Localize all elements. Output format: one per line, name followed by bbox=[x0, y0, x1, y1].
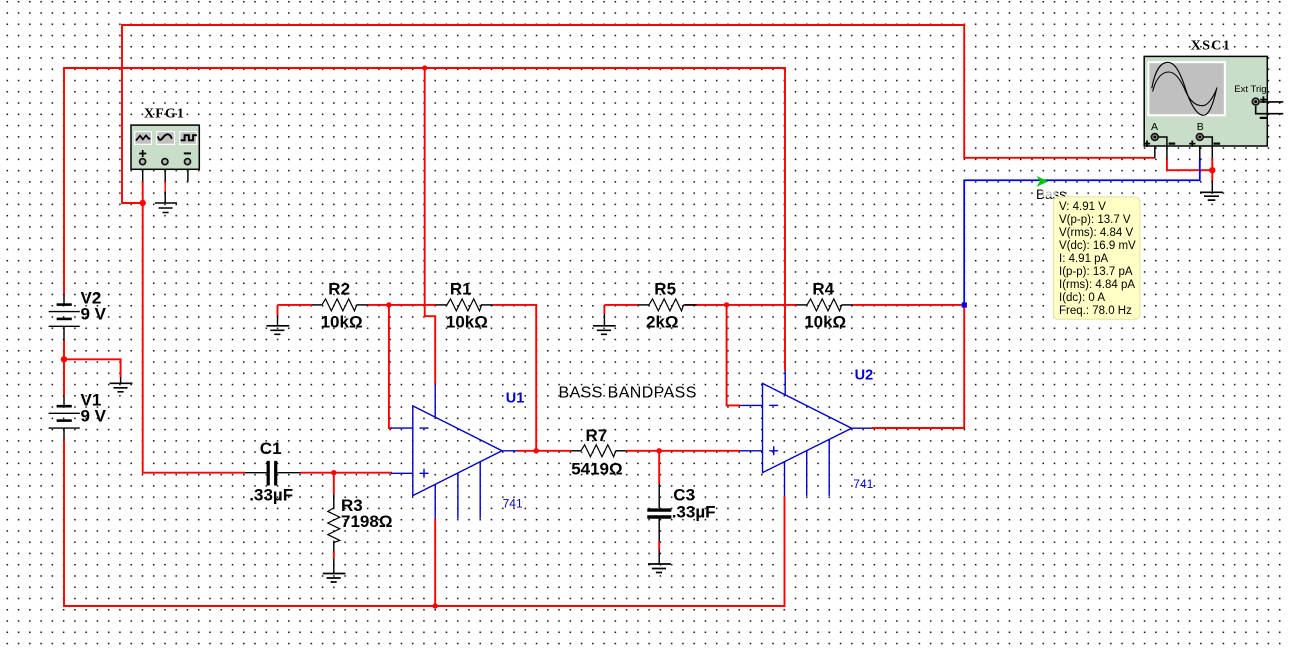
probe tooltip yellow box bbox=[1053, 197, 1140, 319]
scope trace A bbox=[1152, 62, 1217, 115]
svg-text:XSC1: XSC1 bbox=[1191, 39, 1231, 54]
svg-text:R7: R7 bbox=[586, 426, 608, 445]
ground mid rail bbox=[110, 383, 133, 392]
svg-text:U2: U2 bbox=[855, 368, 874, 384]
terminal 1 bbox=[140, 159, 146, 165]
lead R3 bottom black bbox=[333, 541, 335, 574]
lead XFG1 plus stub bbox=[142, 169, 144, 181]
lead R3 top black bbox=[333, 494, 335, 508]
ground R5 bbox=[593, 326, 616, 335]
svg-text:R2: R2 bbox=[328, 279, 350, 298]
svg-text:5419Ω: 5419Ω bbox=[571, 459, 622, 478]
lead C3 top black bbox=[658, 484, 660, 508]
lead V2 bottom stub bbox=[63, 326, 65, 340]
node R5 R4 bbox=[724, 302, 729, 307]
svg-text:V: 4.91 V: V: 4.91 V bbox=[1059, 201, 1106, 213]
node battery mid bbox=[61, 356, 67, 362]
port B bbox=[1196, 134, 1203, 141]
svg-text:741: 741 bbox=[853, 477, 873, 491]
wire C3 bottom red seg bbox=[658, 541, 660, 551]
minus mark bbox=[184, 152, 191, 154]
wire R2R1 junction down to U1 minus bbox=[389, 305, 392, 428]
port Ext Trig bbox=[1252, 98, 1259, 105]
wire top rail to scope A bbox=[122, 25, 1155, 203]
ground C3 bbox=[648, 564, 671, 573]
svg-text:U1: U1 bbox=[506, 391, 525, 407]
wire scope B minus red seg bbox=[1211, 158, 1213, 181]
lead XFG1 mid stub bbox=[164, 169, 166, 203]
lead R7 right lead bbox=[616, 450, 627, 452]
svg-text:I(dc): 0 A: I(dc): 0 A bbox=[1059, 292, 1105, 304]
wire R2 ground stub bbox=[277, 305, 279, 316]
svg-text:I(p-p): 13.7 pA: I(p-p): 13.7 pA bbox=[1059, 266, 1133, 278]
lead scope stubs bbox=[1155, 146, 1213, 192]
node R7 C3 bbox=[657, 448, 662, 453]
lead C1 left lead bbox=[245, 472, 267, 474]
wire R2 right to R1 bbox=[367, 304, 436, 306]
wire V+ rail bbox=[64, 68, 785, 371]
green probe arrow Bass bbox=[1036, 176, 1048, 187]
button sine wave bbox=[156, 131, 175, 145]
wire V1 down bottom rail to U2 pin bbox=[64, 439, 785, 606]
node R2 R1 bbox=[386, 302, 391, 307]
ground R3 bbox=[323, 574, 346, 583]
lead R7 left lead bbox=[571, 450, 581, 452]
lead C3 bottom black bbox=[658, 519, 660, 565]
node XFG1 plus bbox=[140, 200, 146, 206]
svg-text:I(rms): 4.84 pA: I(rms): 4.84 pA bbox=[1059, 279, 1135, 291]
lead R5 ground stub black bbox=[603, 314, 605, 326]
lead R5 right lead bbox=[684, 304, 697, 306]
resistor R5 bbox=[649, 299, 684, 311]
wire R7 to U2 plus bbox=[626, 450, 740, 452]
node C1 R3 bbox=[331, 470, 336, 475]
wire R5R4 junction to U2 minus bbox=[727, 305, 740, 406]
wire C1 to U1 plus bbox=[301, 472, 393, 474]
wire R2 left bbox=[278, 304, 313, 306]
wire U1 pin4 down bbox=[434, 519, 436, 607]
svg-text:7198Ω: 7198Ω bbox=[341, 512, 392, 531]
resistor R2 bbox=[322, 299, 357, 311]
node top jog bbox=[422, 65, 427, 70]
capacitor C1 bbox=[268, 461, 276, 486]
wire junction to V1 bbox=[63, 359, 65, 395]
ground R2 bbox=[266, 326, 289, 335]
svg-text:2kΩ: 2kΩ bbox=[646, 312, 679, 331]
node scope minus bbox=[1209, 167, 1215, 173]
svg-text:XFG1: XFG1 bbox=[144, 107, 185, 122]
wire scope A minus to B minus bbox=[1167, 158, 1212, 170]
svg-text:BASS BANDPASS: BASS BANDPASS bbox=[559, 384, 697, 401]
svg-text:.33µF: .33µF bbox=[249, 486, 293, 505]
port A bbox=[1151, 134, 1158, 141]
svg-text:10kΩ: 10kΩ bbox=[321, 312, 363, 331]
wire top jog down to U1 pin7 bbox=[425, 68, 436, 384]
lead XFG1 right stub bbox=[187, 169, 189, 181]
svg-text:V(p-p): 13.7 V: V(p-p): 13.7 V bbox=[1059, 214, 1131, 226]
lead C1 right lead bbox=[277, 472, 300, 474]
button triangle wave bbox=[134, 131, 152, 145]
lead R5 left lead bbox=[638, 304, 649, 306]
wire U1 out to R7 bbox=[517, 450, 572, 452]
scope screen bbox=[1147, 61, 1226, 116]
svg-text:.33µF: .33µF bbox=[672, 502, 716, 521]
wire Bass node up to scope B plus bbox=[964, 158, 1200, 305]
terminal 2 bbox=[162, 159, 168, 165]
BLUE WIRES bbox=[964, 158, 1200, 305]
op-amp U2 bbox=[740, 371, 872, 496]
wire R5 ground stub bbox=[603, 305, 605, 314]
resistor R1 bbox=[447, 299, 482, 311]
BLACK STUBS AND SYMBOLS bbox=[64, 146, 1212, 574]
battery V1 bbox=[49, 406, 80, 428]
wire V2 to junction to ground bbox=[64, 340, 121, 377]
svg-text:10kΩ: 10kΩ bbox=[446, 312, 488, 331]
lead R1 left lead bbox=[436, 304, 447, 306]
wire R1 right down to U1 out bbox=[493, 305, 537, 451]
wire R4 right to blue node bbox=[852, 304, 964, 306]
svg-text:C1: C1 bbox=[260, 439, 282, 458]
wire R3 bottom red seg bbox=[333, 551, 335, 559]
lead V1 top stub bbox=[63, 396, 65, 407]
lead R1 right lead bbox=[481, 304, 493, 306]
svg-text:R4: R4 bbox=[812, 279, 834, 298]
svg-text:A: A bbox=[1151, 121, 1158, 133]
battery V2 bbox=[49, 305, 80, 327]
svg-text:9 V: 9 V bbox=[81, 305, 107, 324]
lead R4 left lead bbox=[796, 304, 807, 306]
svg-text:V(rms): 4.84 V: V(rms): 4.84 V bbox=[1059, 227, 1133, 239]
svg-text:B: B bbox=[1197, 121, 1204, 133]
ground near XFG1 bbox=[155, 203, 177, 213]
lead R2 ground stub black bbox=[277, 315, 279, 326]
ground scope bbox=[1200, 192, 1223, 200]
scope trace B bbox=[1153, 72, 1217, 106]
button square wave bbox=[179, 131, 197, 145]
wire XFG1 plus down to C1 bbox=[143, 181, 245, 472]
node bottom rail bbox=[433, 603, 438, 608]
svg-text:9 V: 9 V bbox=[81, 407, 107, 426]
svg-text:R5: R5 bbox=[654, 279, 676, 298]
wire XFG1 mid red seg bbox=[164, 181, 166, 191]
lead R2 right lead bbox=[356, 304, 367, 306]
lead V1 bottom stub bbox=[63, 428, 65, 439]
lead R4 right lead bbox=[842, 304, 853, 306]
wire R7C3 junction down bbox=[658, 451, 660, 484]
plus mark bbox=[139, 150, 146, 157]
wire R5 left bbox=[604, 304, 638, 306]
node U1 out bbox=[534, 448, 539, 453]
lead R2 left lead bbox=[312, 304, 322, 306]
op-amp U1 bbox=[391, 384, 517, 519]
probe flag overlay bbox=[1043, 187, 1056, 197]
instrument XSC1 bbox=[1144, 56, 1283, 146]
wire U2 out up to node bbox=[872, 305, 964, 428]
instrument XFG1 bbox=[131, 125, 199, 169]
svg-text:10kΩ: 10kΩ bbox=[804, 312, 846, 331]
capacitor C3 bbox=[647, 510, 671, 517]
svg-text:I: 4.91 pA: I: 4.91 pA bbox=[1059, 253, 1109, 265]
wire R3 top stub bbox=[333, 473, 335, 495]
node Bass blue bbox=[962, 302, 967, 307]
svg-text:V(dc): 16.9 mV: V(dc): 16.9 mV bbox=[1059, 240, 1136, 252]
svg-text:Freq.: 78.0 Hz: Freq.: 78.0 Hz bbox=[1059, 305, 1132, 317]
wire R5 right to R4 left bbox=[685, 304, 797, 306]
svg-text:Ext Trig.: Ext Trig. bbox=[1234, 84, 1269, 95]
lead ground mid stub bbox=[120, 377, 122, 383]
lead V2 top stub bbox=[63, 294, 65, 304]
terminal 3 bbox=[185, 159, 191, 165]
resistor R3 vertical bbox=[328, 508, 340, 543]
resistor R7 bbox=[581, 445, 616, 457]
svg-text:R1: R1 bbox=[450, 279, 472, 298]
resistor R4 bbox=[807, 299, 842, 311]
svg-text:741: 741 bbox=[503, 497, 523, 511]
